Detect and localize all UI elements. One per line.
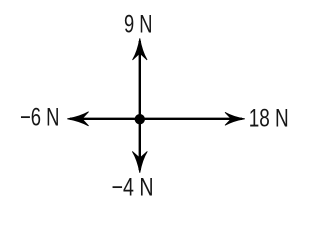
- wire: horizontal shaft (left/right forces): [70, 118, 242, 120]
- svg-text:18 N: 18 N: [249, 104, 289, 132]
- svg-text:−6 N: −6 N: [20, 103, 60, 131]
- arrowhead left (-6 N force): [67, 112, 88, 126]
- arrowhead up (9 N force): [133, 38, 148, 60]
- arrowhead right (18 N force): [225, 112, 245, 125]
- svg-text:−4 N: −4 N: [112, 174, 154, 202]
- node: center junction dot: [135, 114, 145, 124]
- wire: vertical shaft (up/down forces): [139, 41, 141, 170]
- svg-text:9 N: 9 N: [124, 11, 153, 39]
- arrowhead down (-4 N force): [132, 151, 147, 172]
